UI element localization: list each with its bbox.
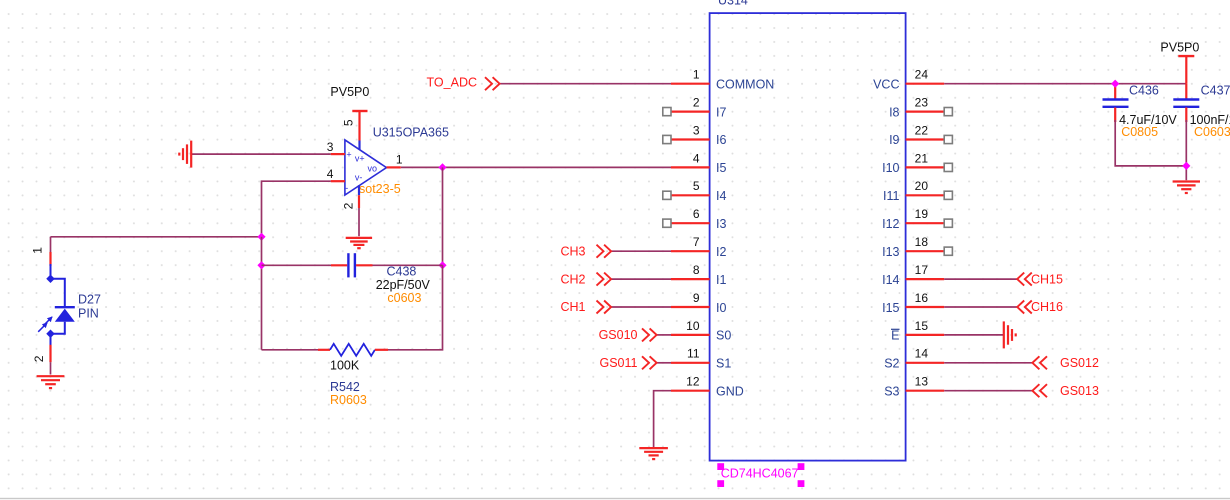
svg-text:D27: D27 [78, 293, 101, 307]
pin name I11 [883, 189, 899, 203]
op-amp pin 5 number (rotated) [342, 119, 356, 126]
op-amp pin 3 stub [331, 153, 345, 155]
pin 24 number [915, 68, 929, 82]
svg-text:GS011: GS011 [600, 356, 638, 370]
wire resistor left [262, 349, 319, 351]
pin name I4 [716, 189, 726, 203]
svg-text:S3: S3 [884, 385, 899, 399]
pin name I8 [889, 105, 899, 119]
pin 21 stub [906, 166, 945, 168]
D27 pin 2 number (rotated) [32, 355, 46, 362]
pin 17 number [915, 263, 929, 277]
pin 18 stub [906, 250, 945, 252]
op-amp pin 3 number [327, 140, 334, 154]
svg-text:U314: U314 [718, 0, 748, 8]
pin name I13 [882, 245, 899, 259]
svg-text:I3: I3 [716, 217, 726, 231]
pin 16 stub [906, 306, 945, 308]
svg-text:4: 4 [693, 151, 700, 165]
pin 1 number [693, 68, 700, 82]
pin 6 number [693, 207, 700, 221]
junction node at C436 top [1111, 80, 1119, 88]
net label CH3 [560, 244, 611, 258]
pin 14 stub [906, 362, 945, 364]
svg-text:C0603: C0603 [1194, 125, 1230, 139]
pin name I14 [882, 273, 899, 287]
pin 3 stub [671, 138, 710, 140]
net label GS012 [1032, 356, 1099, 370]
C437 designator [1201, 83, 1230, 97]
svg-text:E: E [891, 329, 899, 343]
svg-text:I15: I15 [882, 301, 899, 315]
wire CH2 to pin 8 [611, 278, 671, 280]
svg-text:PIN: PIN [78, 307, 99, 321]
pin 20 stub [906, 194, 945, 196]
pin name S3 [884, 385, 899, 399]
pin 23 number [915, 96, 929, 110]
svg-text:5: 5 [693, 179, 700, 193]
wire ground to op-amp pin 3 [191, 153, 331, 155]
capacitor C436 [1103, 84, 1129, 122]
ground symbol at pin 12 [639, 448, 668, 459]
pin name VCC [873, 77, 899, 91]
ground symbol at op-amp pin 3 (sideways) [179, 141, 191, 168]
pin 18 number [915, 235, 929, 249]
svg-text:CH15: CH15 [1031, 272, 1063, 286]
svg-text:13: 13 [915, 375, 929, 389]
wire CH1 to pin 9 [611, 306, 671, 308]
net label TO_ADC [427, 76, 500, 91]
pin 22 number [915, 123, 929, 137]
wire pin 16 to CH16 [944, 306, 1017, 308]
net label GS011 [600, 356, 657, 370]
pin name S1 [716, 357, 731, 371]
capacitor C437 [1173, 84, 1199, 122]
svg-text:v+: v+ [355, 154, 365, 164]
pin name I1 [716, 273, 726, 287]
svg-text:C436: C436 [1129, 83, 1159, 97]
pin 2 number [693, 96, 700, 110]
svg-text:I11: I11 [883, 189, 899, 203]
pin 5 stub [671, 194, 710, 196]
svg-text:5: 5 [342, 119, 356, 126]
op-amp pin 5 stub [358, 111, 360, 149]
pin 19 no-connect square [944, 219, 952, 227]
svg-text:24: 24 [915, 68, 929, 82]
svg-text:1: 1 [693, 68, 700, 82]
C436 designator [1129, 83, 1159, 97]
pin 14 number [915, 347, 929, 361]
svg-text:18: 18 [915, 235, 929, 249]
svg-text:CD74HC4067: CD74HC4067 [721, 467, 799, 481]
svg-text:I10: I10 [882, 161, 899, 175]
pin 6 no-connect square [663, 219, 671, 227]
svg-text:7: 7 [693, 235, 700, 249]
ground symbol at op-amp pin 2 [346, 238, 372, 248]
pin 13 stub [906, 390, 945, 392]
svg-text:20: 20 [915, 179, 929, 193]
pin 22 stub [906, 138, 945, 140]
pin 7 number [693, 235, 700, 249]
wire pin 15 to ground [944, 334, 1004, 336]
pin 5 number [693, 179, 700, 193]
junction node at caps ground rail [1182, 162, 1190, 170]
svg-text:S1: S1 [716, 357, 731, 371]
wire feedback left vertical [261, 237, 263, 350]
svg-text:CH2: CH2 [560, 272, 585, 286]
pin name I0 [716, 301, 726, 315]
svg-text:21: 21 [915, 151, 929, 165]
capacitor C438 [331, 253, 373, 277]
bottom window edge line [0, 498, 1230, 499]
wire TO_ADC to pin 1 [500, 83, 671, 85]
svg-text:3: 3 [327, 140, 334, 154]
svg-text:I0: I0 [716, 301, 726, 315]
svg-text:9: 9 [693, 291, 700, 305]
pin 10 stub [671, 334, 710, 336]
C437 footprint C0603 [1194, 125, 1230, 139]
svg-text:I9: I9 [889, 133, 899, 147]
op-amp pin 1 number [396, 152, 403, 166]
svg-text:COMMON: COMMON [716, 77, 774, 91]
pin 19 stub [906, 222, 945, 224]
wire VCC to decoupling caps and PV5P0 [944, 83, 1186, 85]
svg-text:I5: I5 [716, 161, 726, 175]
junction node at (442.5,265.3) [438, 261, 446, 269]
svg-text:100K: 100K [330, 359, 360, 373]
svg-text:PV5P0: PV5P0 [330, 85, 369, 99]
pin 11 stub [671, 362, 710, 364]
wire C436 bottom to ground rail [1115, 120, 1186, 166]
svg-text:I13: I13 [882, 245, 899, 259]
op-amp output stub (pin 1) [387, 166, 401, 168]
svg-text:4: 4 [327, 167, 334, 181]
svg-text:8: 8 [693, 263, 700, 277]
wire C437 bottom [1185, 120, 1187, 180]
svg-text:C0805: C0805 [1121, 125, 1158, 139]
pin 1 stub [671, 83, 710, 85]
wire GS011 to pin 11 [657, 362, 672, 364]
wire resistor right [388, 265, 443, 350]
wire pin 12 to ground [654, 391, 671, 448]
svg-text:GND: GND [716, 385, 744, 399]
pin 18 no-connect square [944, 247, 952, 255]
wire D27 pin 1 vertical [50, 237, 52, 252]
svg-text:11: 11 [687, 347, 700, 361]
svg-text:I14: I14 [882, 273, 899, 287]
svg-text:GS010: GS010 [599, 328, 638, 342]
junction node at (261.5,265.3) [257, 261, 265, 269]
net label GS010 [599, 328, 657, 342]
svg-text:vo: vo [368, 164, 378, 174]
junction node at (261.5,236.8) [257, 233, 265, 241]
wire D27 to feedback node (top horizontal) [51, 236, 262, 238]
D27 type PIN [78, 307, 99, 321]
svg-text:C438: C438 [387, 265, 417, 279]
pin 8 number [693, 263, 700, 277]
pin 23 no-connect square [944, 108, 952, 116]
svg-text:U315OPA365: U315OPA365 [373, 126, 449, 140]
pin 3 no-connect square [663, 135, 671, 143]
photodiode D27 [38, 264, 75, 346]
svg-text:I2: I2 [716, 245, 726, 259]
wire pin 17 to CH15 [944, 278, 1017, 280]
R542 footprint R0603 [330, 393, 367, 407]
svg-text:I1: I1 [716, 273, 726, 287]
pin name I6 [716, 133, 726, 147]
op-amp U315 body [345, 140, 387, 195]
wire pin 13 to GS013 [944, 390, 1032, 392]
svg-text:6: 6 [693, 207, 700, 221]
pin 11 number [687, 347, 700, 361]
svg-text:22: 22 [915, 123, 929, 137]
svg-text:GS012: GS012 [1060, 356, 1099, 370]
resistor R542 [318, 344, 388, 356]
pin 3 number [693, 123, 700, 137]
wire C438 left [262, 264, 332, 266]
svg-text:2: 2 [32, 355, 46, 362]
C438 designator [387, 265, 417, 279]
pin 2 no-connect square [663, 108, 671, 116]
pin 16 number [915, 291, 929, 305]
IC U314 body [710, 13, 906, 461]
pin 20 number [915, 179, 929, 193]
pin 9 stub [671, 306, 710, 308]
svg-text:14: 14 [915, 347, 929, 361]
svg-text:CH3: CH3 [560, 244, 585, 258]
power symbol PV5P0 at C437 [1160, 41, 1199, 84]
pin name I12 [882, 217, 899, 231]
pin 12 number [686, 375, 700, 389]
D27 pin 1 number (rotated) [31, 247, 45, 254]
pin 23 stub [906, 110, 945, 112]
ground symbol below D27 [37, 376, 65, 388]
pin name S2 [884, 357, 899, 371]
svg-text:23: 23 [915, 96, 929, 110]
pin 6 stub [671, 222, 710, 224]
pin 10 number [686, 319, 700, 333]
svg-text:15: 15 [915, 319, 929, 333]
pin name I3 [716, 217, 726, 231]
net label CH16 [1017, 300, 1063, 314]
wire op-amp pin 2 to ground [358, 208, 360, 236]
wire output node down to feedback [442, 167, 444, 265]
svg-text:I6: I6 [716, 133, 726, 147]
net label CH1 [560, 300, 611, 314]
C438 footprint c0603 [387, 291, 421, 305]
pin 21 number [915, 151, 929, 165]
svg-text:10: 10 [686, 319, 700, 333]
pin 24 stub [906, 83, 945, 85]
pin name I9 [889, 133, 899, 147]
svg-text:I7: I7 [716, 105, 726, 119]
wire C438 right [373, 264, 443, 266]
wire CH3 to pin 7 [611, 250, 671, 252]
svg-text:GS013: GS013 [1060, 384, 1099, 398]
IC U314 designator label (clipped at top) [718, 0, 748, 8]
part number label CD74HC4067 (selected, magenta) [717, 463, 804, 487]
svg-text:v-: v- [355, 173, 363, 183]
svg-text:16: 16 [915, 291, 929, 305]
svg-text:TO_ADC: TO_ADC [427, 76, 477, 90]
pin 4 stub [671, 166, 710, 168]
svg-text:CH16: CH16 [1031, 300, 1063, 314]
D27 pin 2 stub [49, 345, 51, 362]
net label CH15 [1017, 272, 1063, 286]
svg-text:3: 3 [693, 123, 700, 137]
ground symbol at pin 15 (sideways) [1004, 321, 1016, 348]
pin 12 stub [671, 390, 710, 392]
svg-text:19: 19 [915, 207, 929, 221]
C436 value 4.7uF/10V [1119, 113, 1177, 127]
svg-text:22pF/50V: 22pF/50V [376, 278, 431, 292]
pin name S0 [716, 329, 731, 343]
svg-text:R0603: R0603 [330, 393, 367, 407]
svg-text:S2: S2 [884, 357, 899, 371]
pin 4 number [693, 151, 700, 165]
op-amp U315 designator U315OPA365 [373, 126, 449, 140]
pin name I15 [882, 301, 899, 315]
pin 9 number [693, 291, 700, 305]
pin name E with overline [891, 329, 900, 343]
power symbol PV5P0 at op-amp pin 5 [330, 85, 369, 111]
svg-text:c0603: c0603 [387, 291, 421, 305]
pin 17 stub [906, 278, 945, 280]
pin 8 stub [671, 278, 710, 280]
C436 footprint C0805 [1121, 125, 1158, 139]
pin 15 number [915, 319, 929, 333]
D27 designator [78, 293, 101, 307]
svg-text:C437: C437 [1201, 83, 1230, 97]
svg-text:17: 17 [915, 263, 929, 277]
net label CH2 [560, 272, 611, 286]
wire GS010 to pin 10 [657, 334, 672, 336]
svg-text:2: 2 [693, 96, 700, 110]
svg-text:I12: I12 [882, 217, 899, 231]
pin name GND [716, 385, 744, 399]
svg-text:sot23-5: sot23-5 [359, 182, 401, 196]
D27 pin 1 stub [49, 252, 51, 266]
pin 21 no-connect square [944, 163, 952, 171]
svg-text:PV5P0: PV5P0 [1160, 41, 1199, 55]
svg-text:S0: S0 [716, 329, 731, 343]
pin name COMMON [716, 77, 774, 91]
pin name I7 [716, 105, 726, 119]
svg-text:VCC: VCC [873, 77, 899, 91]
svg-text:I8: I8 [889, 105, 899, 119]
svg-text:CH1: CH1 [560, 300, 585, 314]
wire op-amp output to pin 4 [401, 166, 671, 168]
C438 value 22pF/50V [376, 278, 431, 292]
wire pin 14 to GS012 [944, 362, 1032, 364]
op-amp pin 2 stub [358, 185, 360, 208]
R542 value 100K [330, 359, 360, 373]
C437 value 100nF/16V (clipped) [1190, 113, 1230, 127]
wire D27 pin 2 to ground [50, 362, 52, 374]
pin 15 stub [906, 334, 945, 336]
op-amp pin 2 number (rotated) [342, 202, 356, 209]
junction output node [438, 163, 446, 171]
wire op-amp pin 4 to feedback node [262, 181, 331, 237]
svg-text:12: 12 [686, 375, 700, 389]
ground symbol below C437 [1173, 182, 1200, 194]
pin 19 number [915, 207, 929, 221]
pin name I5 [716, 161, 726, 175]
svg-text:1: 1 [396, 152, 403, 166]
op-amp pin 4 number [327, 167, 334, 181]
op-amp footprint sot23-5 [359, 182, 401, 196]
svg-text:1: 1 [31, 247, 45, 254]
svg-text:2: 2 [342, 202, 356, 209]
pin name I10 [882, 161, 899, 175]
net label GS013 [1032, 384, 1099, 398]
svg-text:+: + [346, 149, 351, 159]
pin 20 no-connect square [944, 191, 952, 199]
pin 22 no-connect square [944, 135, 952, 143]
svg-text:-: - [345, 183, 348, 193]
R542 designator [330, 380, 360, 394]
pin 2 stub [671, 110, 710, 112]
pin name I2 [716, 245, 726, 259]
svg-text:I4: I4 [716, 189, 726, 203]
pin 13 number [915, 375, 929, 389]
op-amp pin 4 stub [331, 180, 345, 182]
pin 5 no-connect square [663, 191, 671, 199]
pin 7 stub [671, 250, 710, 252]
